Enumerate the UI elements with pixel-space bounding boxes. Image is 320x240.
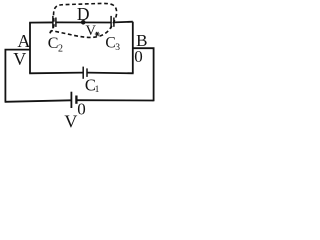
wire bottom-right — [77, 99, 153, 101]
wire middle-left — [29, 72, 83, 75]
svg-text:V: V — [64, 112, 77, 128]
svg-text:2: 2 — [58, 44, 63, 55]
svg-text:0: 0 — [77, 99, 86, 118]
dashed loop around D (voltmeter boundary) — [50, 3, 117, 37]
svg-text:C: C — [105, 34, 115, 51]
wire right vertical (node B) — [132, 22, 134, 74]
svg-text:C: C — [48, 35, 59, 52]
capacitor C2 — [53, 16, 56, 29]
wire left vertical (node A) — [29, 23, 31, 74]
wire top-middle — [56, 21, 111, 23]
wire middle-right — [87, 72, 134, 75]
node D junction dot — [81, 20, 86, 25]
svg-text:3: 3 — [115, 43, 120, 53]
battery short plate — [75, 96, 77, 104]
svg-text:0: 0 — [134, 47, 143, 66]
asterisk mark — [95, 32, 100, 36]
wire bottom-left — [5, 100, 71, 102]
battery long plate — [70, 92, 72, 108]
capacitor C3 — [111, 16, 114, 29]
svg-text:V: V — [86, 23, 97, 39]
capacitor C1 — [83, 67, 87, 79]
svg-text:D: D — [77, 4, 90, 24]
wire top-left run — [29, 21, 53, 23]
wire right branch corner — [133, 48, 154, 101]
svg-text:V: V — [13, 49, 26, 69]
svg-text:A: A — [17, 31, 30, 51]
wire left branch corner — [5, 50, 30, 102]
svg-text:1: 1 — [95, 85, 100, 95]
wire top-right run — [114, 21, 133, 24]
